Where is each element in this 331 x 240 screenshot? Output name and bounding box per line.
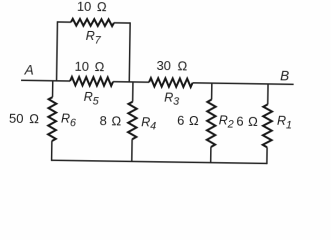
svg-text:30 Ω: 30 Ω [156, 58, 187, 73]
svg-text:10 Ω: 10 Ω [77, 0, 107, 14]
svg-text:6 Ω: 6 Ω [177, 113, 199, 128]
svg-text:8 Ω: 8 Ω [99, 113, 121, 128]
svg-text:10 Ω: 10 Ω [74, 59, 104, 74]
svg-text:50 Ω: 50 Ω [9, 111, 39, 126]
svg-text:6 Ω: 6 Ω [236, 114, 258, 129]
svg-text:A: A [24, 63, 34, 78]
svg-text:B: B [280, 68, 289, 83]
